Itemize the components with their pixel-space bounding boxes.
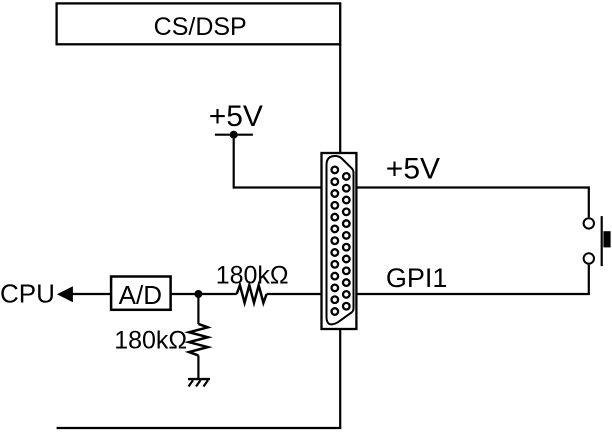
svg-text:180kΩ: 180kΩ <box>114 327 187 355</box>
svg-text:180kΩ: 180kΩ <box>216 262 289 290</box>
svg-text:CS/DSP: CS/DSP <box>154 13 247 41</box>
svg-text:+5V: +5V <box>209 100 263 133</box>
svg-text:CPU: CPU <box>0 279 55 309</box>
svg-text:+5V: +5V <box>386 153 440 186</box>
svg-text:A/D: A/D <box>119 280 162 310</box>
svg-text:GPI1: GPI1 <box>386 263 448 293</box>
